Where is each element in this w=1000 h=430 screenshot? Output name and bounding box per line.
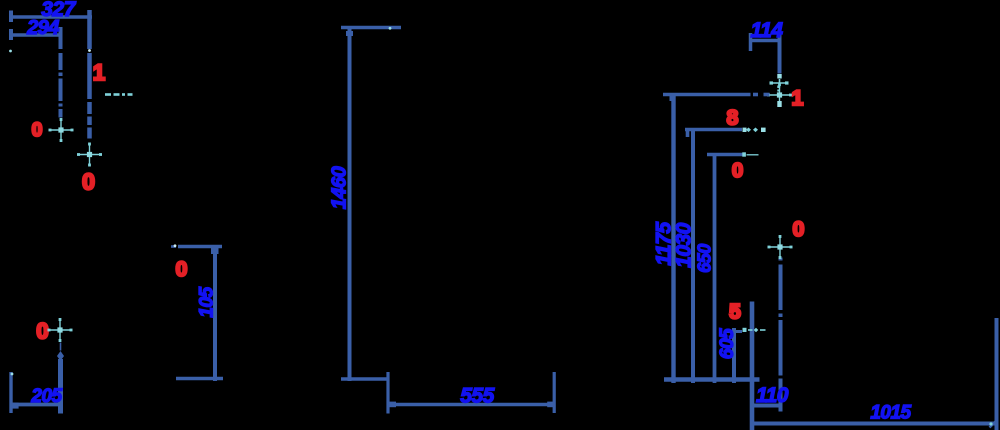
svg-text:0: 0 <box>82 169 95 195</box>
svg-text:110: 110 <box>756 384 789 407</box>
svg-text:8: 8 <box>727 107 739 130</box>
svg-text:1: 1 <box>93 60 105 85</box>
svg-text:0: 0 <box>32 120 43 141</box>
svg-text:1030: 1030 <box>673 222 696 268</box>
svg-text:1015: 1015 <box>870 403 911 424</box>
svg-text:0: 0 <box>176 258 188 281</box>
svg-text:0: 0 <box>793 218 805 241</box>
svg-text:205: 205 <box>30 386 62 407</box>
svg-text:605: 605 <box>717 328 738 359</box>
svg-text:5: 5 <box>729 301 741 324</box>
svg-text:1460: 1460 <box>329 166 351 209</box>
svg-text:555: 555 <box>460 385 494 408</box>
svg-text:0: 0 <box>36 319 48 344</box>
svg-text:650: 650 <box>695 244 715 273</box>
svg-text:1: 1 <box>792 87 804 110</box>
svg-text:0: 0 <box>732 160 743 182</box>
svg-text:294: 294 <box>26 17 59 39</box>
svg-text:105: 105 <box>197 286 218 317</box>
svg-text:114: 114 <box>751 19 784 42</box>
